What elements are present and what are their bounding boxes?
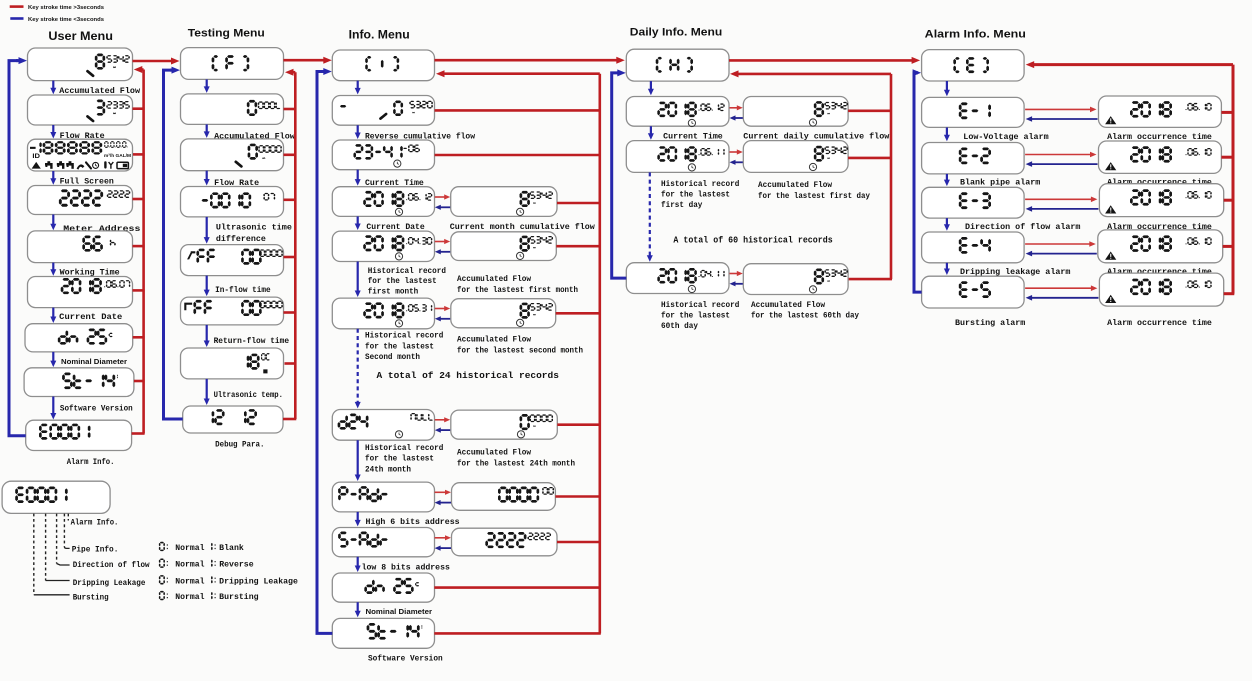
label Current daily cumulative flow (D1R) [743, 131, 889, 141]
wire red testing return bus [283, 69, 296, 419]
svg-text:for the lastest: for the lastest [661, 192, 730, 200]
label In-flow time (T4) [215, 285, 271, 295]
box T6 ultrasonic temp [181, 348, 284, 379]
box I9 nominal diameter [332, 573, 434, 602]
U3 full screen content [30, 141, 131, 170]
svg-text:first month: first month [368, 289, 419, 297]
svg-text:for the lastest: for the lastest [368, 278, 437, 286]
label Direction of flow alarm (A3) [965, 222, 1081, 232]
label hist 60th day line2 [661, 313, 730, 321]
A5R LCD 2018.06.10 [1105, 279, 1212, 303]
legend blue key text [28, 17, 104, 23]
I4R LCD 8.5342 [517, 236, 554, 260]
label Alarm occurrence time (A2R) [1107, 177, 1212, 187]
wire blue daily column step arrows [647, 81, 654, 262]
box A3R alarm occurrence time 3 [1099, 184, 1223, 217]
svg-text:Key stroke time >3seconds: Key stroke time >3seconds [28, 5, 104, 11]
T4 LCD inflow FF 00.0000 [187, 249, 283, 265]
label accumulated 60th day line2 [751, 313, 859, 321]
T7 LCD 12 12 [212, 409, 257, 425]
label accumulated 24th month line2 [457, 460, 575, 468]
box I3 current date [332, 187, 434, 217]
label hist record 24th month line3 [365, 466, 411, 474]
label accumulated first day line1 [758, 182, 832, 190]
svg-text:m³/h GAL/M: m³/h GAL/M [104, 153, 131, 159]
box U1 main display [28, 48, 133, 81]
label accumulated 1st month line2 [457, 287, 578, 295]
alarm state legend rows 0-normal 1-x [159, 542, 298, 602]
label Bursting (legend) [73, 593, 109, 603]
label Reverse cumulative flow (I1) [365, 131, 475, 141]
box D1R current daily cumulative flow [743, 97, 848, 127]
label Ultrasonic temp. (T6) [214, 390, 283, 400]
D1R LCD 8.5342 [809, 101, 848, 126]
T6 LCD 18.0C [247, 353, 270, 373]
box U2 accumulated flow [28, 95, 133, 125]
label Alarm occurrence time (A1R) [1107, 132, 1212, 142]
D2R LCD 8.5342 [809, 146, 848, 171]
legend red key swatch [10, 5, 24, 8]
svg-text:A total of 60 historical recor: A total of 60 historical records [673, 235, 833, 246]
title User Menu [48, 31, 113, 43]
box A1 alarm code E-1 [922, 97, 1025, 127]
box U4 meter address [28, 186, 133, 215]
T2 LCD 0.0000 [236, 144, 282, 167]
svg-text:Bursting: Bursting [219, 592, 258, 602]
box U8 software version [24, 368, 134, 397]
label Dripping leakage alarm (A4) [960, 267, 1070, 277]
label Alarm occurrence time (A4R) [1107, 267, 1212, 277]
box A2R alarm occurrence time 2 [1099, 141, 1222, 173]
svg-text:Accumulated Flow: Accumulated Flow [457, 276, 531, 284]
label hist first day line1 [661, 181, 740, 189]
U4 LCD 2222 2222 [59, 189, 130, 206]
svg-text:for the lastest 60th day: for the lastest 60th day [751, 313, 859, 321]
label Flow Rate (U2) [60, 131, 105, 141]
svg-text:Low-Voltage alarm: Low-Voltage alarm [963, 132, 1048, 142]
box D1 current time [626, 97, 729, 127]
I3 LCD 2018.06.12 [363, 191, 432, 216]
box I10 software version [332, 618, 434, 648]
wire red info return bus [434, 70, 601, 633]
I5R LCD 8.5342 [517, 303, 554, 327]
U1 LCD 8.5342 [88, 54, 130, 76]
box I4R accumulated flow 1st month [451, 232, 557, 261]
label accumulated 2nd month line1 [457, 337, 531, 345]
I3R LCD 8.5342 [517, 191, 554, 216]
title Alarm Info. Menu [925, 29, 1026, 41]
svg-text:Key stroke time <3seconds: Key stroke time <3seconds [28, 17, 104, 23]
label hist first day line3 [661, 202, 703, 210]
D2 LCD 2018.06.11 [657, 146, 724, 171]
wire blue user column step arrows [50, 81, 56, 420]
box A5 alarm code E-5 [922, 276, 1025, 308]
box A0 main (E) [922, 50, 1025, 81]
label Alarm occurrence time (A5R) [1107, 318, 1212, 328]
svg-text:Nominal Diameter: Nominal Diameter [366, 607, 433, 616]
I6 LCD d24 NULL [338, 413, 433, 438]
A4 LCD E-4 [959, 237, 991, 254]
legend red key text [28, 5, 104, 11]
alarm code legend connectors [34, 547, 70, 595]
svg-text:Normal: Normal [175, 560, 204, 570]
svg-text:Direction of flow alarm: Direction of flow alarm [965, 222, 1081, 232]
legend blue key swatch [10, 17, 23, 20]
svg-text:Historical record: Historical record [365, 445, 444, 453]
svg-text:low 8 bits address: low 8 bits address [362, 562, 450, 572]
I6R LCD 0.0000 [517, 414, 553, 438]
svg-text:Software Version: Software Version [60, 404, 133, 414]
box U6 current date [28, 277, 133, 308]
svg-text:Alarm occurrence time: Alarm occurrence time [1107, 318, 1212, 328]
box T5 return-flow time [181, 297, 284, 325]
svg-text:Bursting: Bursting [73, 593, 109, 603]
A3R LCD 2018.06.10 [1105, 189, 1212, 213]
label Full Screen (U3) [60, 176, 114, 186]
svg-text:Daily Info. Menu: Daily Info. Menu [630, 26, 723, 38]
box I1 reverse cumulative flow [332, 96, 434, 126]
T3 LCD -0010 07 [202, 192, 276, 208]
svg-text:Testing Menu: Testing Menu [188, 28, 265, 40]
label Current Time (I2) [365, 178, 424, 188]
wire blue user loopback [9, 57, 27, 436]
label Nominal Diameter (I9) [366, 607, 433, 616]
box I5 hist record 2nd month [332, 298, 434, 329]
label Flow Rate (T2) [214, 178, 259, 188]
label accumulated 1st month line1 [457, 276, 531, 284]
svg-text:60th day: 60th day [661, 323, 698, 331]
svg-text:first day: first day [661, 202, 703, 210]
label hist record 1st month line1 [368, 268, 447, 276]
svg-text:Debug Para.: Debug Para. [215, 439, 264, 449]
I8 LCD S-Adr [338, 532, 388, 548]
U7 LCD dn 25 c [58, 329, 113, 345]
A2R LCD 2018.06.10 [1105, 146, 1212, 170]
svg-text:Blank: Blank [219, 543, 244, 553]
wire red D0 to Alarm menu [729, 57, 920, 64]
T1 LCD 0.000L [247, 100, 280, 116]
svg-text:Dripping Leakage: Dripping Leakage [219, 576, 298, 586]
svg-text:Software Version: Software Version [368, 653, 443, 663]
A2 LCD E-2 [959, 148, 991, 165]
box T7 debug para [183, 406, 283, 433]
label hist 60th day line3 [661, 323, 698, 331]
I7R LCD 0000.00 [498, 487, 554, 503]
box U9 alarm info [26, 420, 132, 450]
box D0 main (H) [626, 49, 729, 81]
label Low-Voltage alarm (A1) [963, 132, 1048, 142]
label Alarm occurrence time (A3R) [1107, 222, 1212, 232]
wire info row shuttle arrows [435, 194, 451, 550]
label Current Date (U6) [59, 313, 122, 322]
box A3 alarm code E-3 [922, 187, 1025, 218]
box I5R accumulated flow 2nd month [451, 299, 556, 328]
label accumulated 2nd month line2 [457, 347, 583, 355]
wire red daily return bus [730, 70, 892, 279]
box I2 current time [332, 140, 434, 170]
box D3R accumulated flow 60th day [743, 264, 848, 295]
svg-text:Alarm Info.: Alarm Info. [71, 518, 119, 528]
A1R LCD 2018.06.10 [1105, 101, 1212, 124]
wire red U1 to Testing menu [133, 58, 180, 65]
wire blue alarm loopback [913, 69, 922, 292]
wire alarm row shuttle arrows [1025, 107, 1098, 301]
svg-text:for the lastest: for the lastest [661, 313, 730, 321]
U5 LCD 66h [82, 236, 115, 252]
wire daily row shuttle arrows [730, 105, 743, 286]
svg-text:Current daily cumulative flow: Current daily cumulative flow [743, 131, 889, 141]
U8 LCD St-14 [62, 373, 118, 390]
I5 LCD 2018.05.31 [363, 302, 432, 327]
label Current month cumulative flow (I3R) [450, 222, 595, 232]
svg-text:for the lastest 24th month: for the lastest 24th month [457, 460, 575, 468]
svg-text:Historical record: Historical record [368, 268, 447, 276]
D0 LCD ( H ) [656, 57, 693, 73]
label hist record 2nd month line2 [365, 343, 434, 351]
label accumulated 24th month line1 [457, 450, 531, 458]
label Debug Para. (T7) [215, 439, 264, 449]
I1 LCD -,0.5320 [340, 101, 433, 119]
label Pipe Info. (legend) [72, 545, 119, 555]
label Alarm Info. (legend) [71, 518, 119, 528]
A4R LCD 2018.06.10 [1105, 235, 1212, 259]
svg-text:Accumulated Flow: Accumulated Flow [457, 450, 531, 458]
svg-text:Current month cumulative flow: Current month cumulative flow [450, 222, 595, 232]
box U3 full screen LCD [28, 139, 133, 171]
label low 8 bits address (I8) [362, 562, 450, 572]
svg-text:Historical record: Historical record [661, 181, 740, 189]
label Return-flow time (T5) [214, 336, 290, 346]
svg-text:Dripping leakage alarm: Dripping leakage alarm [960, 267, 1070, 277]
svg-text:Info. Menu: Info. Menu [349, 30, 410, 42]
A5 LCD E-5 [959, 281, 991, 298]
I10 LCD St-14 [367, 623, 423, 640]
svg-text:Alarm Info. Menu: Alarm Info. Menu [925, 29, 1026, 41]
D3 LCD 2018.04.11 [657, 268, 724, 293]
svg-text:Historical record: Historical record [365, 333, 444, 341]
box T0 main (F) [181, 48, 284, 80]
label Working Time (U5) [60, 267, 120, 277]
box T1 accumulated flow [181, 94, 284, 125]
svg-text:Pipe Info.: Pipe Info. [72, 545, 119, 555]
box I7R high address value [452, 483, 556, 511]
I9 LCD dn 25 c [364, 578, 419, 594]
label hist 60th day line1 [661, 302, 740, 310]
label hist record 2nd month line1 [365, 333, 444, 341]
label Blank pipe alarm (A2) [960, 177, 1040, 187]
svg-text:Accumulated Flow: Accumulated Flow [758, 182, 832, 190]
legend LCD E0001 [15, 487, 67, 503]
wire blue info column step arrows [355, 81, 361, 618]
svg-text:Nominal Diameter: Nominal Diameter [61, 357, 127, 366]
U9 LCD E0001 [39, 424, 90, 440]
svg-text:Current Date: Current Date [59, 313, 122, 322]
A0 LCD ( E ) [953, 57, 989, 73]
svg-text:Current Time: Current Time [663, 131, 723, 141]
svg-text:Bursting alarm: Bursting alarm [955, 318, 1025, 328]
label Dripping Leakage (legend) [73, 578, 146, 588]
svg-text:Accumulated Flow: Accumulated Flow [751, 302, 825, 310]
label hist record 24th month line2 [365, 456, 434, 464]
label hist record 24th month line1 [365, 445, 444, 453]
label A total of 60 historical records [673, 235, 833, 246]
svg-text:24th month: 24th month [365, 466, 411, 474]
box alarm code legend E0001 [2, 481, 110, 513]
D1 LCD 2018.06.12 [657, 102, 724, 127]
title Testing Menu [188, 28, 265, 40]
box U5 working time [28, 231, 133, 263]
box A4R alarm occurrence time 4 [1098, 230, 1223, 263]
svg-text:Normal: Normal [175, 576, 204, 586]
box I4 hist record 1st month [332, 231, 434, 261]
svg-text:Second month: Second month [365, 354, 420, 362]
label Ultrasonic time difference (T3) line1 [216, 222, 292, 232]
box T4 in-flow time [181, 245, 284, 276]
svg-text:Blank pipe alarm: Blank pipe alarm [960, 177, 1040, 187]
box I8 low address [332, 528, 434, 557]
title Info. Menu [349, 30, 410, 42]
svg-text:Normal: Normal [175, 543, 204, 553]
wire blue info loopback [317, 68, 332, 633]
box I6 hist record 24th month [332, 410, 434, 441]
label hist record 2nd month line3 [365, 354, 420, 362]
svg-text:for the lastest: for the lastest [365, 343, 434, 351]
label Bursting alarm (A5) [955, 318, 1025, 328]
label Current Date (I3) [366, 223, 424, 232]
wire red user return bus [132, 66, 145, 434]
label Accumulated Flow (T1) [214, 131, 295, 141]
title Daily Info. Menu [630, 26, 723, 38]
box A4 alarm code E-4 [922, 232, 1025, 263]
box I6R accumulated flow 24th month [451, 410, 558, 439]
A1 LCD E-1 [959, 102, 991, 119]
svg-text:ID: ID [32, 154, 40, 160]
box U7 nominal diameter [25, 324, 133, 352]
label hist record 1st month line2 [368, 278, 437, 286]
wire blue testing column step arrows [204, 79, 210, 405]
label Accumulated Flow (U1) [59, 86, 140, 96]
label Meter Address (U4) [63, 224, 140, 234]
svg-text:Direction of flow: Direction of flow [73, 560, 150, 570]
svg-text:In-flow time: In-flow time [215, 285, 271, 295]
box D2 hist record first day [626, 141, 729, 173]
label High 6 bits address (I7) [366, 517, 460, 527]
wire blue testing loopback [164, 67, 183, 419]
box T3 ultrasonic time difference [181, 187, 284, 217]
svg-text:Dripping Leakage: Dripping Leakage [73, 578, 146, 588]
U6 LCD 2018.06.07 [61, 278, 131, 294]
svg-text:difference: difference [216, 234, 266, 244]
A3 LCD E-3 [959, 192, 991, 209]
svg-text:Accumulated Flow: Accumulated Flow [457, 337, 531, 345]
svg-text:User Menu: User Menu [48, 31, 113, 43]
svg-text:Return-flow time: Return-flow time [214, 336, 290, 346]
wire red alarm return bus [1026, 61, 1235, 294]
box D3 hist record 60th day [626, 263, 729, 294]
box A1R alarm occurrence time 1 [1099, 96, 1222, 127]
svg-text:for the lastest: for the lastest [365, 456, 434, 464]
svg-text:High 6 bits address: High 6 bits address [366, 517, 460, 527]
box I3R current month cumulative flow [451, 187, 557, 217]
label accumulated first day line2 [758, 193, 870, 201]
label hist record 1st month line3 [368, 289, 419, 297]
label Current Time (D1) [663, 131, 723, 141]
box I7 high address [332, 482, 434, 512]
box I8R low address value [452, 528, 558, 556]
box I0 main (1) [332, 50, 434, 81]
T5 LCD retflow FF 00.0000 [184, 300, 283, 316]
svg-text:for the lastest first month: for the lastest first month [457, 287, 578, 295]
I2 LCD 23-41-06 [353, 144, 419, 167]
alarm code legend dashed digit lines [34, 514, 69, 595]
label Software Version (U8) [60, 404, 133, 414]
I8R LCD 2222.2222 [485, 532, 551, 548]
label accumulated 60th day line1 [751, 302, 825, 310]
I7 LCD P-Adr [338, 486, 388, 502]
svg-text:Reverse: Reverse [219, 561, 254, 570]
label Nominal Diameter (U7) [61, 357, 127, 366]
box T2 flow rate [181, 139, 284, 171]
svg-text:Current Date: Current Date [366, 223, 424, 232]
label hist first day line2 [661, 192, 730, 200]
U2 LCD 3.2335 [88, 100, 130, 121]
svg-text:for the lastest first day: for the lastest first day [758, 193, 870, 201]
wire blue alarm column step arrows [944, 81, 950, 275]
wire red T0 to Info menu [283, 57, 331, 64]
box A2 alarm code E-2 [922, 143, 1025, 174]
svg-text:Ultrasonic temp.: Ultrasonic temp. [214, 390, 283, 400]
svg-text:A total of 24 historical recor: A total of 24 historical records [377, 370, 560, 381]
label Alarm Info. (U9) [67, 457, 115, 467]
svg-text:Normal: Normal [175, 592, 204, 602]
svg-text:Alarm Info.: Alarm Info. [67, 457, 115, 467]
I4 LCD 2018.04.30 [363, 235, 432, 260]
svg-text:for the lastest second month: for the lastest second month [457, 347, 583, 355]
svg-text:Ultrasonic time: Ultrasonic time [216, 222, 292, 232]
T0 LCD ( F ) [212, 55, 250, 71]
box D2R accumulated flow first day [743, 141, 848, 173]
box A5R alarm occurrence time 5 [1099, 273, 1223, 306]
I0 LCD ( 1 ) [365, 56, 399, 71]
label Ultrasonic time difference (T3) line2 [216, 234, 266, 244]
label A total of 24 historical records [377, 370, 560, 381]
svg-text:Historical record: Historical record [661, 302, 740, 310]
D3R LCD 8.5342 [809, 269, 848, 293]
wire red I0 to Daily menu [435, 57, 625, 64]
wire blue daily loopback [612, 69, 627, 278]
label Software Version (I10) [368, 653, 443, 663]
label Direction of flow (legend) [73, 560, 150, 570]
